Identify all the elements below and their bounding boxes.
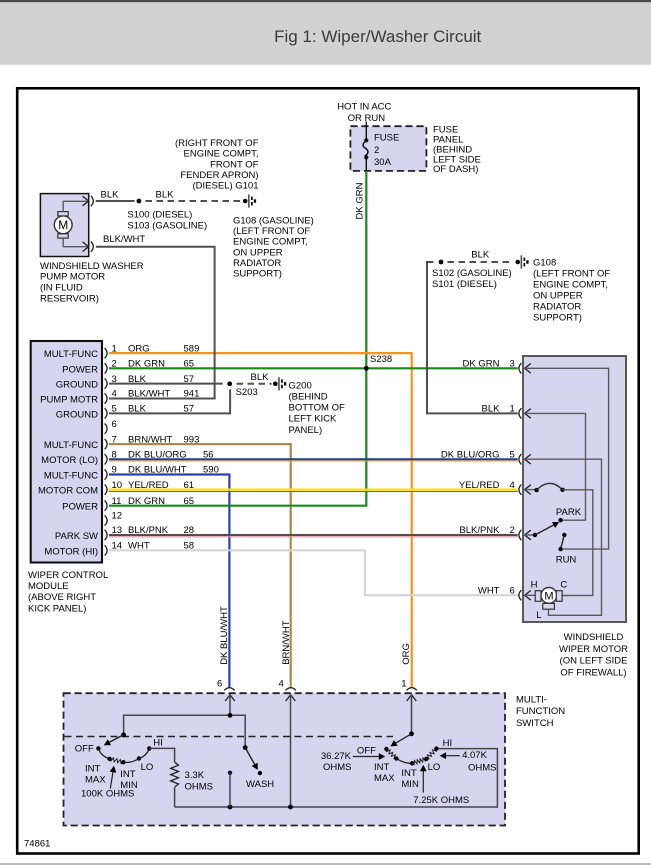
svg-text:MOTOR (HI): MOTOR (HI) bbox=[44, 546, 98, 557]
svg-text:BLK: BLK bbox=[128, 374, 147, 385]
dashed BLK to ground G200 bbox=[237, 383, 272, 385]
MFS: pin6 feed to wash arm + left wiper pivot bbox=[229, 695, 231, 716]
svg-text:DK GRN: DK GRN bbox=[128, 359, 165, 370]
svg-text:57: 57 bbox=[184, 374, 195, 385]
svg-text:590: 590 bbox=[203, 465, 219, 476]
svg-text:SUPPORT): SUPPORT) bbox=[233, 269, 282, 280]
svg-text:57: 57 bbox=[184, 404, 195, 415]
splice S238 bbox=[364, 366, 369, 371]
fuse panel box bbox=[350, 126, 426, 171]
svg-text:61: 61 bbox=[184, 480, 195, 491]
label pointer: 4.07K OHMS bbox=[444, 755, 460, 757]
svg-text:65: 65 bbox=[184, 359, 195, 370]
svg-text:3: 3 bbox=[510, 359, 515, 370]
svg-text:1: 1 bbox=[401, 679, 406, 690]
svg-text:ON UPPER: ON UPPER bbox=[233, 247, 283, 258]
wire BLK/WHT ckt 941: module pin 4 to washer pump bbox=[96, 247, 215, 399]
svg-text:OHMS: OHMS bbox=[323, 762, 352, 773]
label pointer: 36.27K OHMS bbox=[353, 756, 381, 758]
svg-text:4.07K: 4.07K bbox=[462, 750, 487, 761]
svg-text:DK BLU/WHT: DK BLU/WHT bbox=[219, 606, 230, 665]
svg-text:28: 28 bbox=[184, 525, 195, 536]
wiper control module box bbox=[31, 341, 102, 563]
wash return contact to bus bbox=[228, 771, 232, 775]
svg-text:11: 11 bbox=[112, 496, 122, 507]
svg-text:100K OHMS: 100K OHMS bbox=[81, 788, 134, 799]
svg-text:30A: 30A bbox=[374, 157, 392, 168]
svg-text:S101 (DIESEL): S101 (DIESEL) bbox=[432, 279, 497, 290]
wire DK GRN: S238 down to pin 11 row bbox=[365, 368, 367, 505]
wire ORG ckt 589: module pin 1 to MFS pin 1 bbox=[109, 353, 412, 687]
wire DK BLU/WHT ckt 590: module pin 9 to MFS pin 6 bbox=[109, 475, 229, 688]
svg-text:PUMP MOTOR: PUMP MOTOR bbox=[40, 272, 105, 283]
park switch arm (arrow to PARK contact) bbox=[535, 524, 556, 535]
svg-text:4: 4 bbox=[112, 389, 117, 400]
svg-text:ENGINE COMPT,: ENGINE COMPT, bbox=[533, 280, 608, 291]
washer pump internal wiring bbox=[63, 201, 87, 211]
svg-text:DK BLU/WHT: DK BLU/WHT bbox=[128, 465, 187, 476]
splice S102/S101 bbox=[439, 260, 444, 265]
svg-text:MIN: MIN bbox=[401, 779, 419, 790]
svg-text:LO: LO bbox=[141, 762, 154, 773]
svg-text:KICK PANEL): KICK PANEL) bbox=[28, 603, 86, 614]
svg-text:56: 56 bbox=[203, 449, 214, 460]
svg-text:LEFT KICK: LEFT KICK bbox=[289, 414, 338, 425]
svg-text:2: 2 bbox=[112, 359, 117, 370]
svg-text:MAX: MAX bbox=[85, 774, 106, 785]
svg-text:S203: S203 bbox=[236, 387, 258, 398]
svg-text:C: C bbox=[560, 580, 567, 591]
label pointer: 7.25K OHMS bbox=[422, 769, 424, 792]
svg-text:BLK: BLK bbox=[101, 190, 120, 201]
svg-text:M: M bbox=[544, 591, 553, 603]
wire YEL/RED ckt 61: module pin 10 to wiper motor pin 4 bbox=[109, 489, 518, 491]
svg-text:H: H bbox=[531, 579, 538, 590]
svg-text:7.25K OHMS: 7.25K OHMS bbox=[413, 795, 469, 806]
svg-text:RUN: RUN bbox=[556, 555, 577, 566]
svg-text:36.27K: 36.27K bbox=[321, 751, 352, 762]
svg-text:WINDSHIELD: WINDSHIELD bbox=[564, 632, 624, 643]
wire DK GRN: fuse to S238 bbox=[365, 171, 367, 368]
svg-text:BOTTOM OF: BOTTOM OF bbox=[289, 403, 345, 414]
wire BLK: wiper motor pin 1 to S102/S101 bbox=[427, 262, 518, 413]
svg-text:65: 65 bbox=[184, 496, 195, 507]
svg-text:FRONT OF: FRONT OF bbox=[210, 159, 259, 170]
svg-text:DK GRN: DK GRN bbox=[463, 359, 500, 370]
motor internal: pin1 to PARK bbox=[525, 413, 586, 520]
multi-function switch box bbox=[64, 693, 506, 825]
module connector pins 1-14 bbox=[105, 348, 108, 358]
svg-text:(ABOVE RIGHT: (ABOVE RIGHT bbox=[28, 592, 96, 603]
svg-text:MULT-FUNC: MULT-FUNC bbox=[44, 349, 98, 360]
wiper motor M bbox=[541, 588, 557, 604]
svg-text:OHMS: OHMS bbox=[468, 762, 497, 773]
svg-text:S102 (GASOLINE): S102 (GASOLINE) bbox=[432, 268, 512, 279]
svg-text:FUNCTION: FUNCTION bbox=[516, 706, 565, 717]
motor internal: pin4 contact + arc bbox=[525, 489, 537, 491]
svg-text:WINDSHIELD WASHER: WINDSHIELD WASHER bbox=[40, 261, 144, 272]
svg-text:MOTOR (LO): MOTOR (LO) bbox=[41, 455, 98, 466]
svg-text:HOT IN ACC: HOT IN ACC bbox=[337, 102, 391, 113]
washer pump pin connectors bbox=[83, 196, 89, 206]
svg-text:INT: INT bbox=[85, 763, 101, 774]
RUN contact bbox=[562, 533, 566, 537]
right rotary contacts bbox=[384, 747, 388, 751]
svg-text:BLK/PNK: BLK/PNK bbox=[128, 525, 169, 536]
svg-text:INT: INT bbox=[401, 768, 417, 779]
svg-text:6: 6 bbox=[510, 586, 515, 597]
svg-text:FENDER APRON): FENDER APRON) bbox=[180, 170, 258, 181]
svg-text:G200: G200 bbox=[289, 380, 312, 391]
svg-text:2: 2 bbox=[510, 525, 515, 536]
wire resistor to bus bbox=[174, 787, 176, 807]
svg-text:4: 4 bbox=[510, 480, 515, 491]
svg-text:ORG: ORG bbox=[401, 643, 412, 665]
wire BLK: washer pump to S100/S103 bbox=[96, 200, 135, 202]
svg-text:SUPPORT): SUPPORT) bbox=[533, 313, 582, 324]
resistor 4.07K OHMS bbox=[426, 749, 436, 759]
svg-text:MAX: MAX bbox=[374, 773, 395, 784]
svg-text:L: L bbox=[536, 610, 541, 621]
svg-text:OF DASH): OF DASH) bbox=[433, 164, 478, 175]
svg-text:PANEL): PANEL) bbox=[289, 425, 323, 436]
svg-text:RADIATOR: RADIATOR bbox=[533, 302, 581, 313]
mechanical link (dashed) between switch wipers bbox=[65, 736, 394, 738]
svg-text:BLK/WHT: BLK/WHT bbox=[103, 234, 145, 245]
svg-text:ENGINE COMPT,: ENGINE COMPT, bbox=[233, 237, 308, 248]
svg-text:DK BLU/ORG: DK BLU/ORG bbox=[441, 449, 500, 460]
svg-text:BRN/WHT: BRN/WHT bbox=[281, 620, 292, 665]
svg-text:BLK: BLK bbox=[251, 372, 270, 383]
svg-text:DK BLU/ORG: DK BLU/ORG bbox=[128, 449, 187, 460]
svg-text:7: 7 bbox=[112, 434, 117, 445]
windshield wiper motor box bbox=[523, 356, 626, 622]
svg-text:14: 14 bbox=[112, 541, 123, 552]
svg-text:FUSE: FUSE bbox=[374, 133, 399, 144]
dashed BLK to ground G108 bbox=[448, 261, 514, 263]
svg-text:993: 993 bbox=[184, 434, 200, 445]
wire DK GRN ckt 65: module pin 2 to wiper motor pin 3 bbox=[109, 367, 518, 369]
svg-text:MOTOR COM: MOTOR COM bbox=[38, 486, 98, 497]
svg-text:INT: INT bbox=[374, 762, 390, 773]
svg-text:MODULE: MODULE bbox=[28, 581, 69, 592]
svg-text:58: 58 bbox=[184, 541, 195, 552]
splice S100/S103 bbox=[137, 199, 142, 204]
svg-text:RADIATOR: RADIATOR bbox=[233, 258, 281, 269]
wire BLK ckt 57: module pin 5 to S203 bbox=[109, 389, 230, 413]
svg-text:INT: INT bbox=[120, 769, 136, 780]
svg-text:OR RUN: OR RUN bbox=[348, 113, 386, 124]
washer pump motor M bbox=[54, 216, 72, 234]
washer pump motor box bbox=[40, 194, 88, 257]
svg-text:YEL/RED: YEL/RED bbox=[128, 480, 169, 491]
wire: hot feed stub into fuse bbox=[365, 122, 367, 141]
svg-text:Fig 1: Wiper/Washer Circuit: Fig 1: Wiper/Washer Circuit bbox=[274, 27, 481, 46]
svg-text:G108 (GASOLINE): G108 (GASOLINE) bbox=[233, 216, 314, 227]
wire DK BLU/ORG ckt 56: module pin 8 to wiper motor pin 5 bbox=[109, 458, 518, 460]
svg-text:10: 10 bbox=[112, 480, 123, 491]
resistor 100K OHMS bbox=[110, 758, 124, 764]
svg-text:9: 9 bbox=[112, 465, 117, 476]
svg-text:BRN/WHT: BRN/WHT bbox=[128, 434, 173, 445]
ground G108 bbox=[515, 260, 520, 265]
wiper motor connector pins bbox=[519, 363, 522, 373]
svg-text:(LEFT FRONT OF: (LEFT FRONT OF bbox=[533, 269, 610, 280]
svg-text:1: 1 bbox=[112, 343, 117, 354]
svg-text:(DIESEL) G101: (DIESEL) G101 bbox=[193, 181, 259, 192]
header gray bar bbox=[0, 2, 651, 65]
motor internal: pin5 to L brush bbox=[525, 459, 602, 615]
motor internal: pin2 to park switch arm bbox=[525, 534, 535, 536]
MFS: pin4 feed down to resistor bus bbox=[290, 695, 292, 807]
svg-text:S100 (DIESEL): S100 (DIESEL) bbox=[127, 210, 192, 221]
svg-text:ENGINE COMPT,: ENGINE COMPT, bbox=[184, 149, 259, 160]
svg-text:(LEFT FRONT OF: (LEFT FRONT OF bbox=[233, 226, 310, 237]
MFS: pin1 feed down to right wiper pivot bbox=[411, 695, 413, 734]
svg-text:1: 1 bbox=[510, 404, 515, 415]
svg-text:(BEHIND: (BEHIND bbox=[289, 392, 328, 403]
svg-text:MULT-FUNC: MULT-FUNC bbox=[44, 440, 98, 451]
svg-text:WIPER MOTOR: WIPER MOTOR bbox=[559, 644, 628, 655]
svg-text:(ON LEFT SIDE: (ON LEFT SIDE bbox=[560, 656, 628, 667]
svg-text:LO: LO bbox=[428, 762, 441, 773]
svg-text:YEL/RED: YEL/RED bbox=[459, 480, 500, 491]
page top rule bbox=[0, 0, 651, 2]
MFS pin 1 connector bbox=[407, 688, 417, 691]
svg-text:BLK/PNK: BLK/PNK bbox=[459, 525, 500, 536]
svg-text:BLK: BLK bbox=[482, 404, 501, 415]
svg-text:PARK: PARK bbox=[556, 507, 582, 518]
resistor 3.3K OHMS bbox=[171, 762, 179, 787]
svg-text:WIPER CONTROL: WIPER CONTROL bbox=[28, 570, 108, 581]
WASH contact bbox=[258, 771, 262, 775]
svg-text:4: 4 bbox=[279, 679, 284, 690]
svg-text:POWER: POWER bbox=[62, 364, 98, 375]
svg-text:DK GRN: DK GRN bbox=[128, 496, 165, 507]
resistor 36.27K OHMS bbox=[386, 749, 396, 759]
svg-text:OF FIREWALL): OF FIREWALL) bbox=[560, 667, 626, 678]
svg-text:8: 8 bbox=[112, 449, 117, 460]
right wiper arm bbox=[409, 731, 414, 736]
svg-text:WHT: WHT bbox=[478, 586, 500, 597]
left rotary contacts OFF/INT MAX/INT MIN/LO/HI bbox=[96, 746, 100, 750]
svg-text:ORG: ORG bbox=[128, 343, 150, 354]
svg-text:5: 5 bbox=[112, 404, 117, 415]
svg-text:S238: S238 bbox=[370, 354, 392, 365]
svg-text:MULT-FUNC: MULT-FUNC bbox=[44, 471, 98, 482]
MFS pin 4 connector bbox=[286, 688, 296, 691]
ground G101 (diesel) / G108 (gasoline) bbox=[243, 199, 248, 204]
wire BLK/PNK ckt 28: module pin 13 to wiper motor pin 2 bbox=[109, 534, 518, 536]
svg-text:HI: HI bbox=[153, 737, 163, 748]
svg-text:ON UPPER: ON UPPER bbox=[533, 291, 583, 302]
wash switch arm bbox=[243, 745, 248, 750]
resistor 7.25K OHMS bbox=[412, 758, 426, 765]
svg-text:6: 6 bbox=[112, 419, 117, 430]
svg-text:SWITCH: SWITCH bbox=[516, 718, 554, 729]
label pointer: 100K OHMS bbox=[110, 770, 113, 789]
svg-text:RESERVOIR): RESERVOIR) bbox=[40, 293, 99, 304]
wire HI to resistor 3.3K bbox=[149, 748, 174, 762]
motor internal: pin3 to RUN bbox=[525, 368, 609, 549]
svg-text:3: 3 bbox=[112, 374, 117, 385]
svg-text:S103 (GASOLINE): S103 (GASOLINE) bbox=[127, 221, 207, 232]
svg-text:G108: G108 bbox=[533, 258, 556, 269]
left wiper arm bbox=[121, 732, 126, 737]
PARK contact bbox=[558, 518, 562, 522]
svg-text:BLK: BLK bbox=[128, 404, 147, 415]
svg-text:6: 6 bbox=[217, 679, 222, 690]
svg-text:941: 941 bbox=[184, 389, 200, 400]
wire BLK ckt 57: module pin 3 to S203 bbox=[109, 383, 223, 385]
svg-text:589: 589 bbox=[184, 343, 200, 354]
svg-text:13: 13 bbox=[112, 525, 123, 536]
dashed BLK to ground G101/G108 bbox=[146, 200, 241, 202]
svg-text:POWER: POWER bbox=[62, 502, 98, 513]
svg-text:MULTI-: MULTI- bbox=[516, 694, 547, 705]
svg-text:(IN FLUID: (IN FLUID bbox=[40, 283, 83, 294]
svg-text:PUMP MOTR: PUMP MOTR bbox=[40, 395, 98, 406]
wire BRN/WHT ckt 993: module pin 7 to MFS pin 4 bbox=[109, 444, 291, 687]
motor internal: pin6 to H brush bbox=[525, 594, 536, 596]
svg-text:BLK: BLK bbox=[471, 250, 490, 261]
svg-text:BLK/WHT: BLK/WHT bbox=[128, 389, 170, 400]
svg-text:BLK: BLK bbox=[156, 190, 175, 201]
svg-text:3.3K: 3.3K bbox=[185, 770, 205, 781]
svg-text:2: 2 bbox=[374, 145, 379, 156]
svg-text:(RIGHT FRONT OF: (RIGHT FRONT OF bbox=[175, 138, 259, 149]
svg-text:OHMS: OHMS bbox=[185, 781, 214, 792]
svg-text:DK GRN: DK GRN bbox=[355, 182, 366, 219]
splice S203 bbox=[227, 381, 232, 386]
bottom bus wire bbox=[175, 749, 498, 807]
svg-text:HI: HI bbox=[443, 738, 453, 749]
svg-text:WASH: WASH bbox=[246, 779, 274, 790]
svg-text:PARK SW: PARK SW bbox=[55, 531, 98, 542]
bottom edge strip bbox=[0, 863, 651, 865]
svg-text:12: 12 bbox=[112, 511, 123, 522]
svg-text:M: M bbox=[58, 218, 68, 232]
wire DK GRN ckt 65: module pin 11 joins green drop bbox=[109, 505, 367, 507]
MFS pin 6 connector bbox=[224, 688, 234, 691]
svg-text:WHT: WHT bbox=[128, 541, 150, 552]
svg-text:OFF: OFF bbox=[357, 745, 376, 756]
wire WHT ckt 58: module pin 14 to wiper motor pin 6 bbox=[109, 550, 518, 595]
svg-text:5: 5 bbox=[510, 449, 515, 460]
ground G200 bbox=[273, 382, 278, 387]
svg-text:GROUND: GROUND bbox=[56, 409, 98, 420]
svg-text:OFF: OFF bbox=[75, 744, 94, 755]
svg-text:GROUND: GROUND bbox=[56, 380, 98, 391]
svg-text:74861: 74861 bbox=[24, 839, 50, 850]
fuse F2 element bbox=[364, 138, 368, 142]
